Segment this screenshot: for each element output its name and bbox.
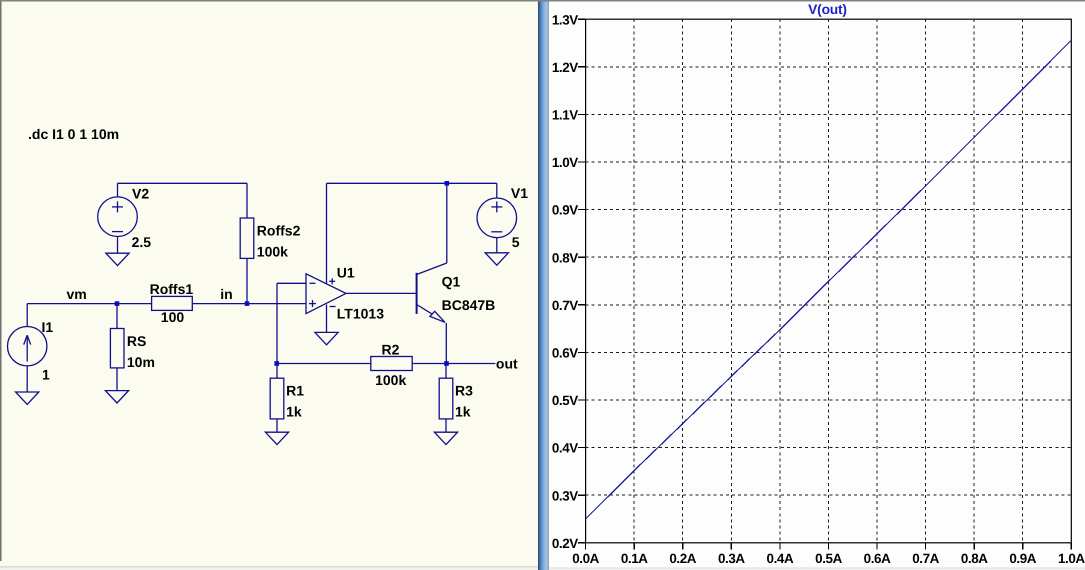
svg-text:10m: 10m	[127, 354, 155, 370]
svg-text:0.6A: 0.6A	[864, 551, 891, 566]
y axis labels	[552, 12, 578, 551]
transistor Q1	[417, 263, 447, 322]
wire R1 top	[276, 364, 278, 379]
wire V2 rail to Roffs2	[118, 182, 248, 184]
label LT1013	[337, 305, 384, 321]
svg-text:1.1V: 1.1V	[552, 108, 578, 123]
svg-text:0.7A: 0.7A	[912, 551, 939, 566]
svg-text:.dc I1 0 1 10m: .dc I1 0 1 10m	[28, 126, 119, 142]
schematic pane background	[0, 0, 538, 570]
value 1k R1	[286, 403, 302, 419]
label R3	[455, 383, 473, 399]
svg-text:0.6V: 0.6V	[552, 346, 578, 361]
wire opamp minus input	[277, 282, 306, 284]
ground V2	[106, 253, 129, 265]
svg-text:1k: 1k	[286, 403, 302, 419]
svg-text:U1: U1	[337, 264, 355, 280]
window left border	[0, 0, 2, 561]
svg-text:0.7V: 0.7V	[552, 298, 578, 313]
label R2	[382, 341, 400, 357]
wire V2 to ground	[117, 237, 119, 254]
svg-text:R1: R1	[286, 383, 304, 399]
node in label	[220, 286, 232, 302]
wire supply rail to V1	[327, 182, 497, 184]
x axis labels	[572, 551, 1085, 566]
label U1	[337, 264, 355, 280]
junction out/R3/emitter	[444, 361, 449, 366]
svg-text:1.2V: 1.2V	[552, 60, 578, 75]
label V1	[511, 185, 528, 201]
svg-text:0.8V: 0.8V	[552, 250, 578, 265]
svg-text:0.9V: 0.9V	[552, 203, 578, 218]
wire emitter riser	[445, 323, 447, 364]
value 100k R2	[375, 372, 406, 388]
spice directive .dc	[28, 126, 119, 142]
op-amp U1	[306, 274, 346, 314]
wire V1 to ground	[496, 238, 498, 253]
svg-text:V1: V1	[511, 185, 528, 201]
svg-text:in: in	[220, 286, 232, 302]
label Q1	[442, 274, 461, 290]
window top border	[0, 0, 1085, 2]
ground I1	[16, 392, 39, 404]
svg-text:I1: I1	[42, 319, 54, 335]
svg-text:0.0A: 0.0A	[572, 551, 599, 566]
node vm label	[67, 286, 87, 302]
svg-text:0.8A: 0.8A	[961, 551, 988, 566]
wire opamp output	[346, 292, 417, 294]
wire V1 top riser	[496, 183, 498, 198]
svg-text:2.5: 2.5	[132, 234, 152, 250]
wire V2 top riser	[117, 183, 119, 197]
ground RS	[105, 391, 128, 403]
svg-text:V2: V2	[132, 186, 149, 202]
wire vm: I1 top riser	[26, 304, 28, 327]
label R1	[286, 383, 304, 399]
wire Roffs1 to opamp	[192, 303, 306, 305]
svg-text:5: 5	[512, 234, 520, 250]
wire I1 to ground	[26, 366, 28, 392]
bottom status strip	[0, 566, 1085, 570]
value 1	[42, 367, 50, 383]
ground V1	[485, 253, 508, 265]
wire out line right	[412, 363, 495, 365]
label I1	[42, 319, 54, 335]
svg-text:LT1013: LT1013	[337, 305, 384, 321]
resistor R2	[371, 357, 412, 371]
svg-text:R2: R2	[382, 341, 400, 357]
pane splitter	[538, 0, 549, 570]
wire opamp V- riser	[326, 305, 328, 333]
ground R1	[265, 432, 288, 444]
plot title V(out)	[808, 2, 847, 17]
resistor Roffs2	[240, 218, 254, 258]
svg-text:out: out	[496, 356, 518, 372]
svg-text:0.3A: 0.3A	[718, 551, 745, 566]
wire feedback vertical	[276, 283, 278, 363]
svg-text:1.3V: 1.3V	[552, 12, 578, 27]
gridlines vertical	[634, 19, 1023, 543]
svg-text:0.5V: 0.5V	[552, 393, 578, 408]
svg-text:1.0A: 1.0A	[1058, 551, 1085, 566]
svg-text:BC847B: BC847B	[442, 297, 496, 313]
wire collector riser	[446, 183, 448, 263]
svg-text:0.1A: 0.1A	[621, 551, 648, 566]
trace V(out)	[586, 40, 1072, 519]
axis ticks	[578, 19, 1071, 549]
svg-text:R3: R3	[455, 383, 473, 399]
junction vm/RS	[115, 301, 120, 306]
svg-text:vm: vm	[67, 286, 87, 302]
plot frame	[586, 19, 1072, 543]
junction rail/collector	[445, 181, 450, 186]
resistor R1	[270, 378, 284, 419]
junction in/Roffs2	[245, 301, 250, 306]
junction feedback/R1	[274, 361, 279, 366]
resistor RS	[110, 329, 124, 368]
wire Roffs2 bottom	[246, 258, 248, 303]
svg-text:100k: 100k	[375, 372, 406, 388]
wire vm horizontal I1 to Roffs1	[27, 303, 151, 305]
wire R3 top	[445, 364, 447, 379]
svg-text:100k: 100k	[257, 243, 288, 259]
svg-text:V(out): V(out)	[808, 2, 847, 17]
wire RS bottom	[116, 368, 118, 391]
svg-text:0.2A: 0.2A	[669, 551, 696, 566]
wire out line left	[277, 363, 371, 365]
wire R3 bottom	[445, 419, 447, 432]
wire opamp V+ riser	[326, 183, 328, 283]
svg-text:RS: RS	[127, 333, 146, 349]
label V2	[132, 186, 149, 202]
gridlines horizontal	[586, 67, 1072, 495]
value 2.5	[132, 234, 152, 250]
svg-text:1: 1	[42, 367, 50, 383]
current source I1	[8, 327, 47, 366]
wire Roffs2 top	[246, 183, 248, 218]
svg-text:1.0V: 1.0V	[552, 155, 578, 170]
node out label	[496, 356, 518, 372]
value 10m	[127, 354, 155, 370]
label BC847B	[442, 297, 496, 313]
svg-text:0.3V: 0.3V	[552, 488, 578, 503]
resistor Roffs1	[152, 296, 193, 310]
voltage source V1	[477, 198, 517, 238]
resistor R3	[439, 378, 453, 419]
svg-text:0.5A: 0.5A	[815, 551, 842, 566]
ground opamp	[315, 332, 338, 344]
svg-text:1k: 1k	[455, 403, 471, 419]
svg-text:0.4V: 0.4V	[552, 441, 578, 456]
value 100	[161, 309, 185, 325]
label Roffs1	[150, 281, 194, 297]
waveform pane background	[549, 0, 1085, 570]
label RS	[127, 333, 146, 349]
svg-text:0.4A: 0.4A	[767, 551, 794, 566]
value 5	[512, 234, 520, 250]
wire R1 bottom	[276, 419, 278, 432]
svg-text:0.2V: 0.2V	[552, 536, 578, 551]
svg-text:Q1: Q1	[442, 274, 461, 290]
ground R3	[434, 432, 457, 444]
svg-text:0.9A: 0.9A	[1009, 551, 1036, 566]
value 1k R3	[455, 403, 471, 419]
svg-text:100: 100	[161, 309, 185, 325]
label Roffs2	[257, 222, 301, 238]
voltage source V2	[98, 197, 138, 237]
wire RS top	[116, 304, 118, 329]
value 100k	[257, 243, 288, 259]
svg-text:Roffs1: Roffs1	[150, 281, 194, 297]
svg-text:Roffs2: Roffs2	[257, 222, 301, 238]
